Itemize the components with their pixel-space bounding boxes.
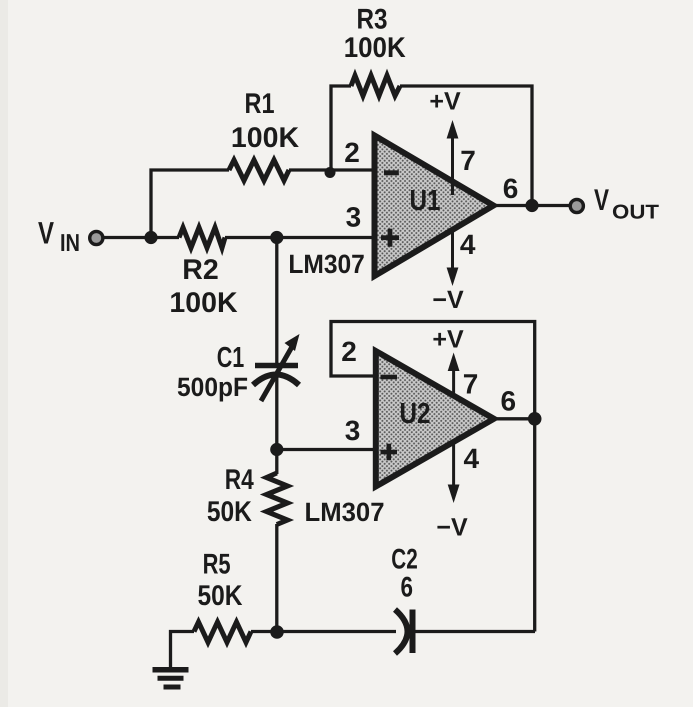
- -V arrow U1: [432, 228, 464, 314]
- node: C1 branch junction: [270, 231, 283, 244]
- wire: VIN terminal to R2: [103, 236, 179, 239]
- svg-text:100K: 100K: [344, 32, 406, 64]
- svg-text:6: 6: [503, 173, 519, 204]
- op-amp U2: [376, 351, 494, 487]
- wire: U2 feedback loop pin2 to output node: [331, 322, 535, 421]
- wire: U2 pin 3 stub: [277, 448, 376, 451]
- svg-text:500pF: 500pF: [177, 372, 248, 402]
- svg-text:7: 7: [460, 145, 476, 176]
- svg-text:C1: C1: [217, 342, 245, 374]
- resistor R5: [194, 622, 251, 642]
- wire: R4 bottom to ground rail: [275, 524, 278, 632]
- node: ground rail junction: [270, 625, 284, 639]
- svg-text:100K: 100K: [231, 122, 300, 154]
- svg-text:50K: 50K: [198, 580, 243, 612]
- svg-text:3: 3: [345, 415, 361, 446]
- svg-text:100K: 100K: [169, 287, 238, 319]
- wire: ground stub left of R5: [171, 632, 195, 669]
- resistor R2: [179, 228, 225, 248]
- capacitor C2: [395, 610, 413, 654]
- wire: R1 right to U1 pin 2: [289, 168, 375, 171]
- label VOUT: [594, 184, 659, 224]
- ground: [153, 670, 189, 687]
- svg-text:V: V: [38, 216, 54, 251]
- svg-text:U2: U2: [400, 398, 431, 430]
- svg-text:+V: +V: [429, 88, 461, 116]
- wire: branch up from VIN node to R1: [151, 170, 229, 238]
- svg-text:R4: R4: [225, 464, 254, 496]
- wire: U1 output to VOUT terminal: [492, 204, 570, 207]
- svg-text:LM307: LM307: [305, 497, 385, 527]
- op-amp U1: [375, 136, 494, 277]
- wire: R5 right to C2: [251, 630, 396, 633]
- svg-text:+V: +V: [432, 326, 464, 354]
- wire: U2 output: [492, 417, 536, 420]
- svg-text:4: 4: [464, 443, 480, 474]
- node: U1 output junction: [525, 199, 538, 212]
- wire: R3 feedback loop right down to output: [400, 86, 532, 206]
- node: U1 pin2 junction: [325, 167, 336, 178]
- svg-text:R1: R1: [245, 88, 275, 120]
- svg-text:4: 4: [460, 229, 476, 260]
- wire: R3 feedback loop left: [331, 86, 351, 170]
- svg-text:R5: R5: [203, 549, 231, 581]
- wire: right vertical from C2 up to U2 output: [533, 419, 536, 632]
- node: U2 pin3 junction: [270, 443, 283, 456]
- svg-text:V: V: [594, 184, 609, 217]
- resistor R4: [267, 473, 288, 525]
- svg-text:−V: −V: [432, 286, 464, 314]
- resistor R1: [229, 160, 289, 181]
- svg-text:R2: R2: [182, 254, 218, 286]
- wire: R2 right to U1 pin 3: [225, 236, 375, 239]
- terminal VOUT: [570, 199, 583, 212]
- terminal VIN: [90, 231, 103, 244]
- +V arrow U1: [429, 88, 461, 196]
- svg-text:−V: −V: [436, 514, 468, 542]
- capacitor C1 (variable): [253, 334, 300, 401]
- svg-text:3: 3: [346, 201, 362, 232]
- wire: C1 branch down from VIN line: [275, 238, 278, 365]
- -V arrow U2: [436, 440, 468, 542]
- svg-text:6: 6: [501, 385, 517, 416]
- svg-text:R3: R3: [357, 4, 388, 36]
- svg-text:50K: 50K: [207, 496, 252, 528]
- svg-text:OUT: OUT: [612, 202, 659, 224]
- +V arrow U2: [432, 326, 464, 394]
- label VIN: [38, 216, 80, 258]
- wire: C2 right to corner: [413, 630, 535, 633]
- node: U2 output junction: [528, 412, 542, 426]
- wire: C1 bottom to R4 top: [275, 376, 278, 474]
- svg-text:2: 2: [344, 137, 360, 168]
- svg-text:U1: U1: [410, 185, 441, 217]
- svg-text:LM307: LM307: [288, 249, 365, 279]
- svg-text:2: 2: [341, 336, 357, 367]
- svg-text:6: 6: [401, 572, 414, 604]
- svg-text:7: 7: [463, 369, 479, 400]
- resistor R3: [351, 76, 400, 96]
- svg-text:IN: IN: [60, 230, 80, 257]
- node: VIN junction: [144, 231, 157, 244]
